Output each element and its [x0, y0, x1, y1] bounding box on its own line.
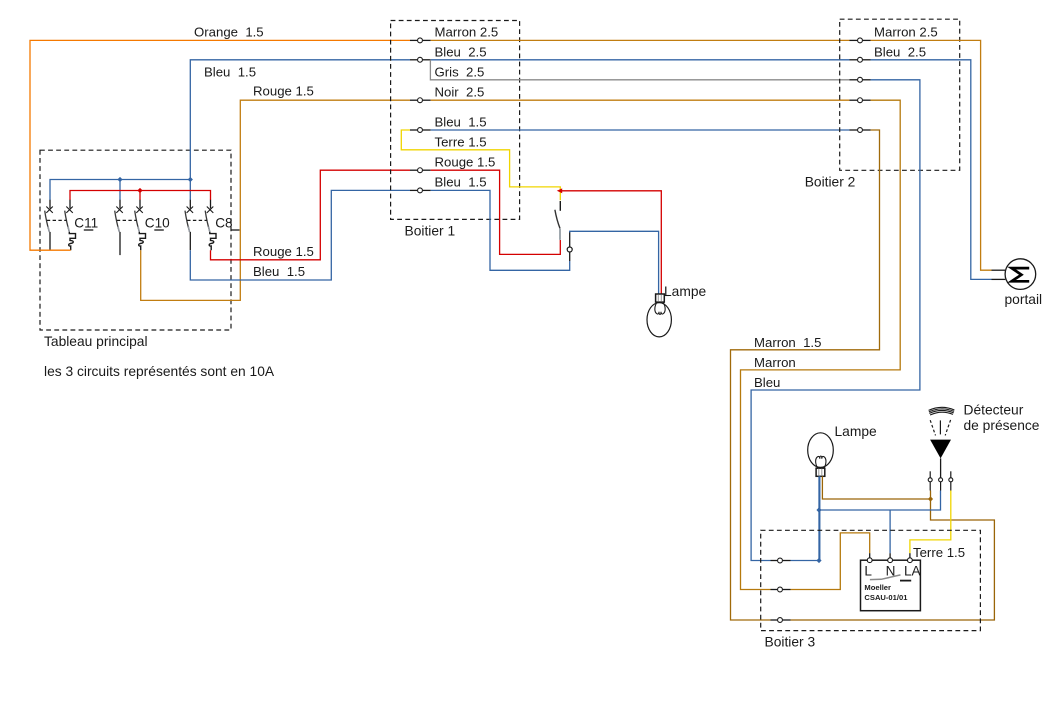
enclosure Boitier 1 [391, 21, 520, 220]
wire blue detector mid terminal to N [819, 491, 941, 511]
wire red circuit C8 to Rouge terminal [211, 170, 411, 260]
svg-text:Bleu 1.5: Bleu 1.5 [204, 65, 256, 80]
terminal stub black upper [569, 232, 571, 247]
wire blue upper to lamp1 [570, 231, 659, 294]
wire brown detector left terminal [930, 491, 932, 500]
enclosure Boitier 3 [761, 530, 981, 630]
breaker C8 [185, 200, 240, 250]
wire marron B2 down to Boitier 3 t2 [741, 100, 901, 589]
enclosure Tableau principal [40, 150, 231, 330]
breaker C10 [115, 200, 164, 255]
node red bus junction [137, 188, 142, 193]
svg-text:CSAU-01/01: CSAU-01/01 [864, 593, 908, 602]
svg-text:Gris 2.5: Gris 2.5 [435, 65, 485, 80]
svg-text:Marron 2.5: Marron 2.5 [435, 25, 499, 40]
svg-text:C10: C10 [145, 216, 170, 231]
wire blue t1 to lamp junction [791, 560, 819, 562]
enclosure Boitier 2 [840, 19, 960, 170]
svg-text:Orange 1.5: Orange 1.5 [194, 25, 264, 40]
wire blue B1 to B2 [431, 59, 850, 61]
svg-text:Boitier 3: Boitier 3 [765, 634, 816, 649]
wire blue feed to Boitier 1 [190, 59, 410, 61]
detector presence [928, 407, 954, 490]
wire blue B2 down to Boitier 3 [751, 80, 920, 561]
svg-text:Rouge 1.5: Rouge 1.5 [253, 244, 314, 259]
svg-text:Tableau principal: Tableau principal [44, 334, 148, 349]
wire blue lamp2 down [818, 476, 820, 560]
wire orange circuit C11 [30, 40, 410, 250]
svg-text:Terre 1.5: Terre 1.5 [913, 545, 965, 560]
LA underline [900, 580, 911, 582]
lamp Lampe 1 [647, 294, 671, 337]
svg-text:Bleu 2.5: Bleu 2.5 [874, 45, 926, 60]
svg-text:Bleu 2.5: Bleu 2.5 [435, 45, 487, 60]
svg-text:de présence: de présence [964, 418, 1040, 433]
wire yellow detector right to LA [910, 491, 951, 554]
svg-text:Bleu 1.5: Bleu 1.5 [253, 264, 305, 279]
node dot brown junction [928, 496, 933, 501]
node blue bus junction 2 [188, 177, 193, 182]
wire marron t2 to Moeller L [791, 533, 870, 590]
svg-text:Bleu 1.5: Bleu 1.5 [435, 115, 487, 130]
wire marron B1 to B2 [431, 39, 850, 41]
svg-text:Noir 2.5: Noir 2.5 [435, 85, 485, 100]
wire terre (yellow) [401, 130, 560, 200]
svg-text:L: L [864, 564, 872, 579]
svg-text:Marron: Marron [754, 355, 796, 370]
breaker C11 [45, 200, 94, 250]
wire blue circuit C8 to Bleu terminal [190, 190, 410, 280]
svg-text:Boitier 2: Boitier 2 [805, 174, 856, 189]
terminal stub black [569, 252, 571, 261]
switch S1 [555, 201, 560, 240]
wire blue B2 to portail [871, 60, 992, 280]
wire marron circuit C10 to Noir terminal [141, 100, 410, 300]
svg-text:Détecteur: Détecteur [964, 403, 1024, 418]
node circle on blue lamp wire [567, 247, 572, 252]
svg-text:Bleu 1.5: Bleu 1.5 [435, 175, 487, 190]
wire blue branch to N terminal [889, 510, 891, 553]
lamp Lampe 2 [808, 433, 834, 477]
terminals Boitier 2 (x=860) [850, 38, 871, 133]
wire marron 1.5 B2 down to Boitier 3 t3 [731, 130, 880, 620]
wire phase bus (red) [70, 191, 211, 201]
node dot lamp2 blue 1 [816, 507, 821, 512]
svg-text:portail: portail [1005, 292, 1043, 307]
motor portail [992, 259, 1036, 290]
svg-text:Marron 1.5: Marron 1.5 [754, 335, 821, 350]
svg-text:Terre 1.5: Terre 1.5 [435, 135, 487, 150]
svg-text:Lampe: Lampe [664, 284, 707, 299]
wire red switch to lamp1 (with arrow) [557, 188, 562, 193]
svg-text:les 3 circuits représentés son: les 3 circuits représentés sont en 10A [44, 364, 275, 379]
switch blade inside relay [870, 575, 901, 580]
wire neutral bus (blue) [50, 60, 190, 200]
node blue bus junction 1 [117, 177, 122, 182]
svg-text:Marron 2.5: Marron 2.5 [874, 25, 938, 40]
relay Moeller CSAU-01/01 [861, 553, 922, 611]
wire blue to lamp1 [431, 190, 570, 270]
wire brown junction to B3 t3 right [791, 499, 995, 620]
svg-text:Boitier 1: Boitier 1 [405, 224, 456, 239]
svg-text:C8: C8 [215, 216, 232, 231]
wire red to switch [431, 170, 561, 254]
wire marron B2 to portail [871, 40, 992, 270]
svg-text:Rouge 1.5: Rouge 1.5 [253, 84, 314, 99]
svg-text:C11: C11 [74, 216, 98, 231]
svg-text:Moeller: Moeller [864, 583, 891, 592]
svg-text:Bleu: Bleu [754, 375, 780, 390]
svg-text:Lampe: Lampe [835, 424, 878, 439]
node dot lamp2 blue 2 [816, 558, 821, 563]
wire noir B1 to B2 [431, 99, 850, 101]
terminals Boitier 1 (x=420) [410, 38, 431, 193]
svg-text:Rouge 1.5: Rouge 1.5 [435, 155, 496, 170]
svg-text:LA: LA [904, 564, 922, 579]
terminals Boitier 3 [771, 558, 791, 622]
wire blue 1.5 B1 to B2 [431, 129, 850, 131]
wire brown lamp2 to detector junction [822, 476, 930, 499]
wire gris B1 to B2 [430, 60, 849, 80]
